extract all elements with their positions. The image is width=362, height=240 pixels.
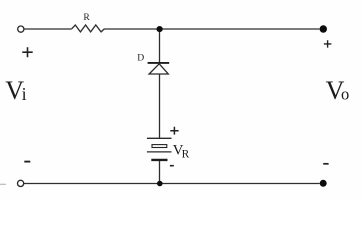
svg-text:R: R: [182, 149, 190, 161]
wire battery to bottom junction: [159, 161, 161, 184]
terminal circle input top: [18, 26, 24, 32]
battery VR plate 3 long: [147, 151, 172, 153]
wire diode to battery: [159, 74, 161, 138]
svg-text:o: o: [341, 85, 349, 104]
svg-text:D: D: [137, 52, 144, 63]
wire top-left segment: [24, 28, 72, 30]
input minus sign: [24, 161, 30, 163]
battery VR plate 1 long: [147, 137, 172, 139]
wire edge artifact left: [0, 183, 6, 185]
svg-text:R: R: [83, 12, 90, 23]
output plus sign: [324, 40, 332, 47]
junction node top: [157, 26, 163, 32]
terminal circle input bottom: [18, 180, 24, 186]
diode D cathode bar: [148, 62, 170, 64]
battery VR plate 4 short thick: [151, 159, 167, 161]
diode D triangle: [149, 64, 168, 74]
terminal dot output top: [320, 25, 327, 32]
junction node bottom: [157, 181, 163, 187]
wire top-right segment: [105, 28, 320, 30]
svg-text:i: i: [22, 84, 27, 104]
battery plus sign: [170, 127, 178, 135]
output minus sign: [323, 163, 328, 165]
wire branch junction to diode: [159, 29, 161, 62]
battery minus sign: [170, 165, 174, 167]
battery VR plate 2 short thick: [152, 145, 167, 148]
terminal dot output bottom: [320, 180, 327, 187]
resistor R: [72, 25, 105, 32]
wire bottom rail: [24, 183, 320, 185]
input plus sign: [22, 47, 32, 57]
